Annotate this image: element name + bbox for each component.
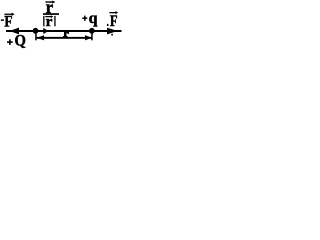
svg-text:Q: Q — [15, 33, 26, 50]
fraction bar — [43, 13, 59, 15]
arrow over -F — [5, 14, 14, 15]
unit vector r-hat arrowhead on line — [43, 28, 48, 34]
charge +Q dot — [33, 28, 39, 34]
svg-text:F: F — [110, 13, 118, 30]
arrow over right F — [109, 12, 116, 13]
label +q: plus sign — [82, 17, 87, 19]
label r (separation distance) — [63, 32, 69, 37]
label +Q: plus sign — [7, 41, 13, 43]
arrowhead of force F pointing right — [107, 28, 118, 35]
dimension arrow shaft for r — [37, 37, 93, 39]
dimension arrowhead right — [85, 35, 92, 40]
label -F vector: minus sign — [1, 19, 4, 21]
denominator: left absolute bar — [43, 16, 44, 26]
charge +q dot — [89, 28, 95, 34]
wire: main horizontal line between charges — [6, 30, 122, 32]
stray speck left of right F label — [107, 24, 109, 26]
svg-text:q: q — [89, 10, 98, 27]
denominator: right absolute bar — [54, 16, 55, 26]
arrowhead of force -F pointing left — [10, 28, 20, 35]
tick below charge q — [91, 31, 93, 40]
arrow over numerator r — [45, 1, 53, 2]
dimension arrowhead left — [37, 35, 44, 40]
background — [0, 0, 123, 51]
arrow over denominator r — [45, 16, 52, 17]
stray speck below right arrowhead — [111, 34, 113, 36]
svg-text:F: F — [4, 14, 12, 31]
tick below charge Q — [35, 31, 37, 40]
